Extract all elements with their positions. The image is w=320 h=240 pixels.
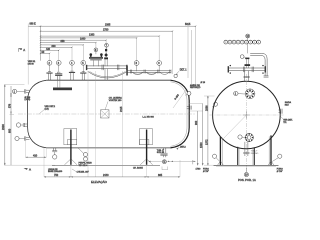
diagonal 45 line (223, 115, 246, 139)
svg-text:A: A (23, 48, 25, 52)
nozzle N3 flange (bolted pair) (55, 72, 62, 80)
end view title (238, 178, 256, 182)
svg-text:BASE 200x200: BASE 200x200 (48, 170, 63, 173)
top dimension line 4 (41, 37, 137, 39)
balloon bottom nozzle (53, 152, 57, 159)
top dimension line 3 (41, 33, 160, 36)
rotated dim 2115 (120, 106, 123, 112)
svg-text:CHUMB. 3/4": CHUMB. 3/4" (77, 172, 90, 174)
left head nozzle A1 (25, 89, 30, 93)
balloon end drain (244, 168, 248, 177)
svg-text:Ø 7/8": Ø 7/8" (203, 171, 209, 173)
svg-text:SCH 40: SCH 40 (157, 152, 165, 154)
vessel shell (side view) (47, 80, 171, 148)
corner note left (203, 169, 209, 174)
central manifold pipe (86, 65, 128, 71)
svg-text:885: 885 (158, 174, 163, 177)
end view bottom drain (243, 142, 258, 156)
nozzle N4 flange (tall neck) (69, 71, 75, 80)
end view right rim nozzle (279, 109, 283, 114)
balloon N5 (81, 60, 86, 72)
right leg (140, 129, 153, 165)
top dimension line 10 (41, 51, 50, 54)
left head nozzle A2 (23, 123, 27, 127)
svg-text:5815: 5815 (185, 23, 191, 26)
extension drops from dim line ends (50, 26, 196, 88)
text drain spec (157, 150, 165, 154)
svg-text:2330: 2330 (1, 124, 5, 130)
text perfil leg (79, 163, 93, 168)
section arrow A bottom (24, 168, 32, 172)
svg-text:1363: 1363 (89, 33, 95, 36)
dim line under head right (149, 161, 196, 162)
det leader near head bottom (177, 146, 187, 149)
bottom drain nozzle (160, 148, 167, 157)
svg-text:2365: 2365 (105, 23, 111, 26)
left master extension line (40, 26, 42, 61)
balloon N8 (134, 61, 139, 72)
bottom nozzle under shell (52, 148, 57, 152)
note N1 left (28, 61, 36, 65)
inter-view vertical dims (189, 104, 204, 166)
horizontal centerline (210, 114, 284, 116)
end view elbow pipe (250, 53, 268, 77)
svg-text:TIP. DE 4: TIP. DE 4 (79, 165, 89, 167)
balloon base right (272, 154, 282, 161)
balloon face flange lower (238, 135, 245, 139)
svg-text:L.A. NR 600: L.A. NR 600 (143, 115, 155, 118)
balloon A1 (12, 89, 24, 93)
svg-text:REFORÇO: REFORÇO (190, 87, 201, 89)
end view legs (218, 135, 274, 165)
balloon N2 (47, 60, 52, 71)
dimension end ticks (40, 26, 197, 55)
balloon ring (185, 91, 191, 95)
end view left dim (205, 96, 208, 165)
end view ext lines (204, 96, 215, 165)
svg-text:DET. 1: DET. 1 (180, 69, 188, 71)
svg-text:(LG): (LG) (45, 109, 49, 111)
svg-text:420: 420 (46, 48, 51, 51)
face flange lower (245, 133, 254, 142)
end view gauge (240, 55, 246, 59)
baseline beam (52, 165, 160, 167)
svg-text:1060: 1060 (80, 38, 86, 41)
svg-text:600: 600 (9, 128, 12, 133)
svg-text:800: 800 (52, 45, 57, 48)
end view shell circle (213, 81, 281, 149)
reinforcement pad arc (double) (88, 72, 127, 79)
balloon drain (162, 160, 166, 164)
left leg (64, 129, 77, 165)
svg-text:VORTEX 150: VORTEX 150 (109, 100, 122, 102)
balloon N4 (70, 60, 75, 71)
nozzle neck under manifold (105, 69, 107, 81)
note right rim lower (281, 117, 293, 125)
center mark (243, 112, 250, 119)
top dimension line 2 (41, 28, 173, 31)
svg-text:1500: 1500 (200, 142, 203, 148)
internal vortex plate (101, 102, 110, 119)
svg-text:2096: 2096 (205, 105, 208, 111)
manifold safety valve (dark stack) (104, 49, 108, 66)
nozzle N2 flange (46, 72, 52, 81)
note nivel (143, 115, 155, 118)
balloon N6 (94, 48, 98, 54)
text aneis reforco (190, 84, 201, 89)
svg-text:(VER): (VER) (25, 99, 31, 101)
internal distributor (dark bar) (53, 88, 72, 91)
right dim tick 1760 (193, 160, 201, 171)
note right rim upper (285, 101, 292, 106)
note end view top-left (201, 82, 206, 84)
balloon A3 (15, 136, 25, 140)
det leader right head (174, 69, 187, 77)
top dimension line 9 (41, 48, 59, 51)
bottom dimension line (44, 174, 180, 178)
balloon N9 (157, 61, 162, 72)
svg-text:900: 900 (195, 120, 198, 125)
balloon N7 (105, 43, 109, 51)
right head nozzle flange (187, 106, 191, 110)
section arrow A top (18, 48, 25, 52)
dimension 410 under left head (26, 154, 47, 157)
radius line on head (173, 90, 186, 108)
note vortex plate (109, 96, 123, 102)
extension verticals (26, 71, 181, 177)
end view base line (214, 165, 279, 166)
svg-text:A: A (29, 168, 31, 172)
svg-text:CH. BASE: CH. BASE (133, 166, 143, 169)
end view riser with dark flange (245, 58, 251, 69)
text ch base right (133, 166, 143, 169)
manifold manhole yoke (bolted) (89, 53, 103, 66)
svg-text:2730: 2730 (103, 28, 109, 31)
left head nozzle A3 (25, 136, 30, 140)
left extension ticks (5, 24, 55, 166)
svg-text:DN 80: DN 80 (28, 63, 35, 65)
nozzle N5 flange (80, 72, 86, 81)
note ver det (40, 106, 56, 114)
top dimension line 5 (41, 38, 107, 41)
svg-text:2440: 2440 (103, 174, 109, 177)
left vertical dimension line outer (1, 85, 5, 166)
left vertical dimension line inner (9, 86, 12, 165)
svg-text:TÍP.: TÍP. (283, 121, 287, 124)
top dimension line 8 (41, 45, 73, 48)
top dimension line 6 (41, 40, 96, 43)
end view top nozzle neck (244, 71, 250, 82)
text chumbador (72, 169, 89, 174)
right top pipe section (126, 66, 171, 76)
balloon N3 (56, 60, 61, 73)
face flange upper (245, 89, 255, 99)
balloon legs pair (78, 148, 88, 161)
svg-text:ELEVAÇÃO: ELEVAÇÃO (91, 179, 108, 184)
balloon row end view (224, 40, 261, 44)
svg-text:1760: 1760 (196, 169, 202, 171)
balloon base left (212, 154, 219, 161)
top dimension line 1 (28, 23, 195, 26)
svg-text:576: 576 (9, 103, 12, 108)
end view manifold pipe (228, 65, 266, 74)
svg-text:DET.2: DET.2 (180, 146, 187, 148)
horizontal centerline (18, 113, 196, 115)
left head (2:1 elliptical) (28, 80, 47, 148)
vertical centerline (245, 74, 247, 171)
svg-text:1372: 1372 (205, 139, 208, 145)
note dia A1 (25, 97, 32, 101)
internal dip tube (58, 80, 60, 87)
svg-text:POS. POR. 1A: POS. POR. 1A (238, 178, 256, 182)
title ELEVACAO (91, 179, 108, 184)
svg-text:DRENO: DRENO (251, 153, 259, 155)
balloon face flange upper (234, 91, 245, 95)
balloon M top (246, 34, 250, 53)
svg-text:410: 410 (33, 154, 38, 157)
text chapa base left (48, 168, 63, 173)
svg-text:868 E: 868 E (30, 23, 37, 26)
corner note right (277, 169, 283, 174)
svg-text:Ø 7/8": Ø 7/8" (277, 171, 283, 173)
balloon right head nozzle (212, 102, 218, 107)
svg-text:868: 868 (61, 40, 66, 43)
top dimension line 7 (41, 44, 84, 46)
svg-text:750: 750 (54, 174, 59, 177)
right head (2:1 elliptical, heavier line) (171, 80, 190, 148)
drain offset dim (162, 167, 168, 170)
balloon A2 (16, 123, 23, 127)
